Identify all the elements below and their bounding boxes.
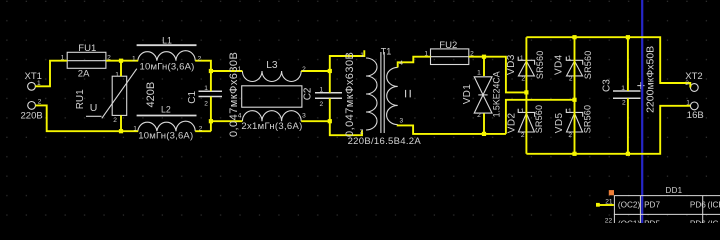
wire L2 out right (195, 130, 211, 132)
junction AC1 column1 (524, 90, 528, 94)
svg-text:420В: 420В (145, 82, 157, 108)
svg-text:RU1: RU1 (75, 89, 86, 109)
svg-text:1: 1 (204, 85, 208, 92)
connector XT1 pin1 circle (28, 82, 36, 90)
IC DD1 box left edge (613, 196, 615, 223)
connector XT2 pin2 circle (690, 102, 698, 110)
svg-text:VD3: VD3 (506, 54, 517, 75)
svg-text:L2: L2 (161, 105, 171, 115)
junction C2 top (328, 69, 332, 73)
svg-text:2: 2 (107, 54, 111, 61)
svg-text:2: 2 (360, 129, 364, 136)
svg-text:PD7: PD7 (644, 201, 660, 210)
svg-text:2: 2 (477, 112, 481, 119)
wire VD1 top drop (483, 57, 485, 76)
diode VD4 triangle (567, 61, 583, 76)
svg-text:2: 2 (38, 99, 42, 106)
svg-text:1: 1 (132, 56, 136, 63)
wire bottom rail C1 to L3 (211, 120, 243, 122)
TVS diode VD1 center bar (478, 94, 487, 96)
svg-text:1: 1 (424, 51, 428, 58)
svg-text:1: 1 (686, 99, 690, 106)
svg-text:1: 1 (621, 85, 625, 92)
svg-text:2: 2 (320, 101, 324, 108)
svg-text:1: 1 (37, 80, 41, 87)
junction AC2 column2 (572, 98, 576, 102)
fuse FU1 internal line (67, 60, 106, 62)
wire bottom minus rail to XT2.2 (526, 106, 690, 154)
svg-text:2: 2 (470, 51, 474, 58)
junction bottom rail column2 (572, 152, 576, 156)
IC DD1 box top edge (614, 195, 720, 197)
connector XT1 pin2 circle (28, 102, 36, 110)
transformer T1 core lines (381, 52, 384, 133)
svg-text:DD1: DD1 (666, 186, 683, 195)
svg-text:C3: C3 (601, 79, 612, 92)
diode VD2 triangle (518, 113, 534, 132)
svg-text:2: 2 (622, 100, 626, 107)
svg-text:C1: C1 (187, 90, 198, 103)
wire RU1 top drop (120, 61, 122, 76)
svg-text:1: 1 (61, 54, 65, 61)
wire VD1 bottom drop (483, 113, 485, 133)
wire T1 secondary pin3 run (398, 125, 506, 134)
svg-text:PD5: PD5 (644, 219, 660, 223)
svg-text:2: 2 (204, 101, 208, 108)
diode VD3 triangle (518, 61, 534, 76)
capacitor C3 plus sign (637, 82, 644, 89)
junction FU1/RU1 (119, 59, 123, 63)
junction VD1 bottom (482, 132, 486, 136)
pin end square DD1 pin21 (596, 203, 600, 207)
svg-text:4: 4 (399, 60, 403, 67)
svg-text:L1: L1 (162, 35, 172, 45)
svg-text:1: 1 (521, 108, 525, 115)
svg-text:22: 22 (605, 218, 613, 223)
svg-text:1: 1 (133, 126, 137, 133)
wire top plus rail to XT2.1 (526, 37, 690, 87)
wire bridge column2 VD4-VD5 (574, 37, 576, 154)
TVS diode VD1 lower triangle (474, 95, 492, 113)
svg-text:SR560: SR560 (534, 105, 544, 134)
svg-text:PD6: PD6 (690, 219, 706, 223)
fuse FU1 body (67, 52, 106, 68)
wire top rail C1 to L3 (211, 70, 243, 72)
svg-text:FU2: FU2 (439, 40, 457, 51)
diode VD5 schottky bar (566, 109, 582, 117)
svg-text:SR560: SR560 (582, 105, 592, 134)
wire C3 bottom drop (627, 98, 629, 154)
svg-text:1: 1 (477, 70, 481, 77)
wire bridge column1 VD3-VD2 (525, 37, 527, 154)
wire RU1 bottom drop (120, 115, 122, 131)
svg-text:2200мкФх50В: 2200мкФх50В (645, 46, 657, 113)
TVS diode VD1 upper triangle (474, 77, 492, 95)
svg-text:2: 2 (568, 132, 572, 139)
capacitor C3 plates (613, 91, 641, 98)
inductor L2 winding (138, 121, 195, 131)
svg-text:1: 1 (520, 55, 524, 62)
svg-text:(OC2): (OC2) (618, 201, 641, 210)
svg-text:2: 2 (521, 132, 525, 139)
diode VD4 schottky bar (566, 57, 582, 65)
junction top rail C3 (626, 35, 630, 39)
svg-text:T1: T1 (381, 47, 392, 57)
wire FU2 out to AC1 node (469, 57, 527, 93)
diode VD5 triangle (567, 113, 583, 132)
transformer T1 primary winding (366, 58, 377, 130)
wire C1 bottom to L2 (210, 97, 212, 132)
junction top rail column2 (572, 35, 576, 39)
svg-text:PD6: PD6 (690, 201, 706, 210)
svg-text:2: 2 (199, 126, 203, 133)
wire XT1.1 to FU1 (35, 61, 67, 87)
svg-text:2: 2 (569, 75, 573, 82)
cursor crosshair blue vertical line (641, 0, 643, 223)
junction C1 top (209, 69, 213, 73)
svg-text:(OC1): (OC1) (618, 219, 641, 223)
svg-text:2: 2 (302, 66, 306, 73)
wire L1 out right (195, 61, 211, 92)
svg-text:0,047мкФх630В: 0,047мкФх630В (228, 52, 240, 137)
wire C2 top and up to T1 primary pin1 (330, 50, 365, 92)
svg-text:(IC: (IC (708, 219, 719, 223)
svg-text:SR560: SR560 (535, 51, 545, 80)
choke L3 core box (242, 86, 302, 107)
svg-text:10мГн(3,6А): 10мГн(3,6А) (138, 131, 193, 142)
connector XT2 pin1 circle (690, 84, 698, 92)
wire C3 top drop (627, 37, 629, 91)
svg-text:10мГн(3,6А): 10мГн(3,6А) (140, 61, 195, 72)
svg-text:2: 2 (198, 56, 202, 63)
svg-text:VD2: VD2 (507, 113, 518, 134)
svg-text:2х1мГн(3,6А): 2х1мГн(3,6А) (241, 121, 302, 132)
IC DD1 cell divider 1 (639, 196, 641, 223)
capacitor C2 plates (315, 93, 342, 99)
svg-text:1: 1 (568, 108, 572, 115)
wire bottom rail L3 to C2 (301, 120, 330, 122)
inductor L1 winding (138, 51, 195, 61)
svg-text:4: 4 (238, 113, 242, 120)
junction bottom rail C3 (626, 152, 630, 156)
svg-text:1: 1 (567, 55, 571, 62)
svg-text:FU1: FU1 (78, 43, 96, 54)
varistor RU1 diagonal (102, 69, 137, 119)
svg-text:SR560: SR560 (583, 51, 593, 80)
svg-text:2: 2 (685, 80, 689, 87)
svg-text:1: 1 (360, 52, 364, 59)
svg-text:3: 3 (302, 113, 306, 120)
svg-text:C2: C2 (302, 87, 313, 100)
svg-text:VD1: VD1 (462, 84, 473, 104)
svg-text:1.5KE24CA: 1.5KE24CA (491, 71, 501, 117)
transformer T1 secondary winding (387, 67, 398, 124)
svg-text:U: U (90, 102, 98, 114)
wire XT1.2 to bottom rail (35, 105, 138, 131)
diode VD3 schottky bar (518, 57, 534, 65)
svg-text:2A: 2A (78, 68, 90, 79)
svg-text:0,047мкФх630В: 0,047мкФх630В (344, 52, 356, 137)
choke L3 top winding (242, 71, 301, 82)
inductor L1 core bar (137, 44, 197, 46)
selection marker orange square (609, 190, 614, 195)
svg-text:3: 3 (400, 118, 404, 125)
svg-text:2: 2 (521, 75, 525, 82)
inductor L2 core bar (137, 115, 197, 117)
svg-text:21: 21 (605, 199, 613, 206)
svg-text:1: 1 (320, 87, 324, 94)
fuse FU2 body (431, 49, 469, 65)
svg-text:16В: 16В (687, 110, 704, 121)
junction FU2/VD1 (482, 55, 486, 59)
varistor RU1 U underline (86, 115, 102, 117)
svg-text:L3: L3 (266, 60, 278, 71)
fuse FU2 internal line (431, 56, 469, 58)
svg-text:220В/16.5В4.2А: 220В/16.5В4.2А (348, 136, 422, 147)
transformer T1 secondary II mark (406, 90, 411, 98)
varistor RU1 box (112, 76, 127, 115)
svg-text:1: 1 (115, 72, 119, 79)
junction RU1 bottom (119, 129, 123, 133)
IC DD1 cell divider 2 (702, 196, 704, 223)
svg-text:(ICP: (ICP (708, 201, 720, 210)
wire top rail L3 to C2 (301, 70, 330, 72)
capacitor C1 plates (199, 91, 223, 96)
junction C2 bottom (328, 119, 332, 123)
svg-text:1: 1 (238, 66, 242, 73)
svg-text:220В: 220В (21, 110, 43, 121)
wire AC2 riser and crossover (506, 100, 575, 134)
wire T1 secondary pin4 to FU2 (398, 57, 431, 68)
wire C2 bottom and down to T1 primary pin2 (330, 98, 362, 135)
svg-text:VD4: VD4 (554, 54, 565, 75)
svg-text:VD5: VD5 (554, 113, 565, 134)
svg-text:2: 2 (113, 117, 117, 124)
wire DD1 pin 21 (599, 204, 614, 206)
junction C1 bottom (209, 119, 213, 123)
diode VD2 schottky bar (518, 109, 534, 117)
IC DD1 row divider (614, 213, 720, 215)
choke L3 bottom winding (242, 111, 301, 122)
wire FU1 to L1 (106, 60, 138, 62)
